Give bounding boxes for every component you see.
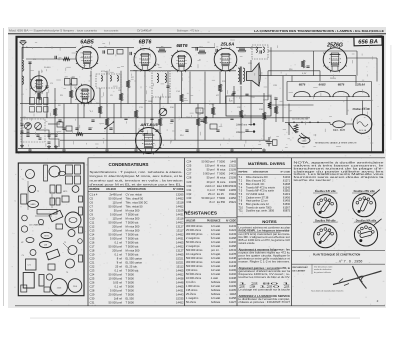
capacitor C11 <box>185 130 188 131</box>
svg-text:472: 472 <box>72 77 75 79</box>
resistor R12 <box>262 112 266 120</box>
capacitor C12 <box>200 120 203 121</box>
svg-text:14448: 14448 <box>176 280 184 284</box>
svg-text:1/4 watt: 1/4 watt <box>211 236 220 240</box>
svg-text:C22: C22 <box>90 264 95 268</box>
svg-text:C17: C17 <box>90 244 95 248</box>
wire jack arrows <box>249 124 253 131</box>
svg-text:11443: 11443 <box>229 232 237 236</box>
svg-text:1/2 watt: 1/2 watt <box>211 268 220 272</box>
svg-text:13118: 13118 <box>176 216 184 220</box>
svg-text:25 000 ohms: 25 000 ohms <box>186 228 202 232</box>
antenna coil second <box>22 76 23 84</box>
column divider x=184.5 <box>184 158 186 306</box>
wire <box>181 72 183 118</box>
svg-text:1/4 watt: 1/4 watt <box>211 256 220 260</box>
svg-text:50 000 pmf: 50 000 pmf <box>202 196 215 200</box>
svg-text:0,4 ohm: 0,4 ohm <box>186 280 195 284</box>
svg-text:100 pmf: 100 pmf <box>112 228 122 232</box>
svg-text:d'essai pour M et EL et de ser: d'essai pour M et EL et de service pour … <box>90 182 183 186</box>
resistor R ballast <box>294 124 298 133</box>
svg-text:R14: R14 <box>180 135 183 137</box>
svg-text:25L6A: 25L6A <box>356 83 365 87</box>
svg-text:R6: R6 <box>161 47 163 49</box>
svg-text:2 mégohms: 2 mégohms <box>186 236 200 240</box>
svg-text:14438: 14438 <box>176 276 184 280</box>
svg-text:20 000 pmf: 20 000 pmf <box>109 292 123 296</box>
wire <box>70 83 72 104</box>
wire B+ rail <box>258 75 356 77</box>
svg-text:14452: 14452 <box>176 204 184 208</box>
resistor R4 <box>98 106 102 114</box>
svg-text:VALEUR: VALEUR <box>186 219 196 222</box>
svg-text:C1 à 4: C1 à 4 <box>90 192 98 196</box>
svg-text:o58: o58 <box>44 245 47 247</box>
svg-text:T 5000 tub.: T 5000 tub. <box>126 240 140 244</box>
svg-text:6S3 - BU5: 6S3 - BU5 <box>333 128 346 132</box>
svg-text:C27: C27 <box>187 172 192 176</box>
svg-text:1/4 watt: 1/4 watt <box>211 264 220 268</box>
IF can 472 rects <box>65 79 71 86</box>
svg-text:NE BRANCHEZ JAMAIS LA TERRE DI: NE BRANCHEZ JAMAIS LA TERRE DIRECTE <box>315 142 357 145</box>
svg-text:T11: T11 <box>239 209 244 213</box>
svg-text:CW30: CW30 <box>263 100 268 102</box>
svg-text:masse. Régler C 1-2 et les tri: masse. Régler C 1-2 et les trimmers. <box>239 261 291 264</box>
svg-text:C6: C6 <box>90 200 94 204</box>
page edge shadow left <box>2 28 5 306</box>
coupling box T4 <box>252 45 268 59</box>
svg-text:6BT6: 6BT6 <box>44 236 49 238</box>
svg-text:Bobinages : 472 kc/s . .: Bobinages : 472 kc/s . . <box>177 30 202 33</box>
svg-text:N° CODE: N° CODE <box>281 172 291 174</box>
svg-text:11468: 11468 <box>229 236 237 240</box>
svg-text:VALEUR: VALEUR <box>106 188 116 191</box>
svg-text:Elec 3450: Elec 3450 <box>217 184 229 188</box>
svg-text:Voir désormais notre: Voir désormais notre <box>314 265 333 268</box>
svg-text:CV 2x490 pF: CV 2x490 pF <box>137 30 152 33</box>
svg-text:C29: C29 <box>187 180 192 184</box>
svg-text:11458: 11458 <box>229 296 237 300</box>
svg-text:50 000 pmf: 50 000 pmf <box>109 220 123 224</box>
svg-text:N° CODE: N° CODE <box>173 188 184 191</box>
svg-text:T 5000 tub.: T 5000 tub. <box>126 212 140 216</box>
capacitor C2 <box>45 86 48 87</box>
power cord <box>299 133 310 139</box>
svg-text:10 mégohms: 10 mégohms <box>186 252 202 256</box>
wire <box>99 88 101 118</box>
svg-text:M mica: M mica <box>217 176 226 180</box>
svg-text:50 ohms: 50 ohms <box>186 300 197 304</box>
svg-text:T5: T5 <box>64 242 66 244</box>
svg-text:C19: C19 <box>90 252 95 256</box>
svg-text:C5: C5 <box>90 196 94 200</box>
svg-text:ANT-BU5: ANT-BU5 <box>139 122 158 127</box>
svg-text:15112: 15112 <box>176 264 184 268</box>
svg-text:Douilles sup. amér. 1956: Douilles sup. amér. 1956 <box>246 209 275 213</box>
svg-text:25L6: 25L6 <box>73 286 77 288</box>
svg-text:mode de réalisation: mode de réalisation <box>314 268 331 271</box>
svg-text:C32: C32 <box>187 192 192 196</box>
capacitor C15 <box>245 130 248 131</box>
svg-text:Le pictage est commandé sur la: Le pictage est commandé sur la touche <box>239 289 291 292</box>
column divider x=291.5 <box>291 158 293 306</box>
svg-text:suivant ensuite.: suivant ensuite. <box>239 242 256 245</box>
schematic outer frame <box>17 37 384 153</box>
svg-text:300 000 ohms: 300 000 ohms <box>186 232 203 236</box>
wire top bus 4 <box>192 46 216 48</box>
capacitor C9 <box>155 130 158 131</box>
chassis oval 6AB5 <box>28 201 39 208</box>
svg-text:CV var. réduit: CV var. réduit <box>126 192 143 196</box>
condensateurs header row <box>88 185 185 187</box>
svg-text:longue C électrolytique M mi: longue C électrolytique M mica, aux tube… <box>90 174 184 178</box>
svg-text:150 pmf: 150 pmf <box>205 163 215 167</box>
svg-text:300 000 ohms: 300 000 ohms <box>186 260 203 264</box>
svg-text:C30: C30 <box>90 296 95 300</box>
svg-text:b: b <box>79 295 80 297</box>
svg-text:Douilles 6J5 ville: Douilles 6J5 ville <box>315 189 336 193</box>
svg-text:M mica 500: M mica 500 <box>126 228 140 232</box>
svg-text:T 5000: T 5000 <box>217 188 226 192</box>
svg-text:LA CONSTRUCTION DES TRANSFORMA: LA CONSTRUCTION DES TRANSFORMATEURS • LA… <box>254 29 384 33</box>
svg-text:M mica: M mica <box>217 168 226 172</box>
chassis speaker (rotated) <box>49 210 63 221</box>
capacitor C20 <box>232 92 235 93</box>
svg-text:3.: 3. <box>377 299 380 303</box>
CAD connector <box>298 137 310 143</box>
svg-text:12643: 12643 <box>229 248 237 252</box>
svg-text:0,1 mf: 0,1 mf <box>115 268 123 272</box>
svg-text:50 000 pmf: 50 000 pmf <box>109 272 123 276</box>
svg-text:T 5000 tub.: T 5000 tub. <box>126 268 140 272</box>
svg-text:1/4 watt: 1/4 watt <box>211 260 220 264</box>
svg-text:13109: 13109 <box>176 208 184 212</box>
B minus line <box>268 104 314 106</box>
svg-text:6BT6: 6BT6 <box>338 83 345 87</box>
resistor R5 <box>119 93 123 101</box>
svg-text:pot. int.: pot. int. <box>211 248 220 252</box>
svg-text:300 000 ohms: 300 000 ohms <box>186 224 203 228</box>
svg-text:50 000 pmf: 50 000 pmf <box>109 196 123 200</box>
svg-text:C26: C26 <box>187 168 192 172</box>
scan speckle noise <box>106 219 107 220</box>
svg-text:Tous droits de reproduction ré: Tous droits de reproduction réservés <box>311 290 343 293</box>
svg-text:T 5000 tub.: T 5000 tub. <box>126 236 140 240</box>
wire <box>250 60 252 126</box>
resistor R3 <box>69 90 73 98</box>
resistor R9 <box>203 116 207 124</box>
svg-text:14431: 14431 <box>176 288 184 292</box>
heading NOTES <box>237 216 292 218</box>
svg-text:Jolie 6 mm: Jolie 6 mm <box>236 125 247 127</box>
svg-text:T 5000 tub.: T 5000 tub. <box>126 232 140 236</box>
wire <box>38 71 40 104</box>
svg-text:15335: 15335 <box>176 296 184 300</box>
capacitor C1 <box>28 62 31 63</box>
chassis wires <box>27 181 29 210</box>
svg-text:1/4 watt: 1/4 watt <box>211 232 220 236</box>
svg-text:C28: C28 <box>187 176 192 180</box>
svg-text:25Z6G: 25Z6G <box>326 42 343 48</box>
chassis trimmer <box>28 185 35 192</box>
resistor R6 <box>134 110 138 118</box>
svg-text:500 000 ohms: 500 000 ohms <box>186 248 203 252</box>
svg-text:2x16 mf: 2x16 mf <box>205 184 215 188</box>
svg-text:14452: 14452 <box>176 272 184 276</box>
rule under date <box>292 263 386 265</box>
svg-text:14431: 14431 <box>176 236 184 240</box>
tube V3 converter <box>76 84 95 105</box>
tone network box <box>226 96 271 116</box>
svg-text:bobinée: bobinée <box>211 300 221 304</box>
svg-text:Jolie p.u.: Jolie p.u. <box>236 132 246 134</box>
capacitor C16 <box>274 98 277 99</box>
wire top bus 2 <box>98 46 134 48</box>
capacitor C8 <box>140 130 143 131</box>
svg-text:T 5000: T 5000 <box>126 292 135 296</box>
texture fuzz <box>21 40 374 152</box>
electrolytic capacitor C30 <box>266 137 273 146</box>
svg-text:Ordre ST-38: Ordre ST-38 <box>352 107 369 111</box>
wire phono bus <box>60 139 270 141</box>
page edge shadow right <box>390 45 393 140</box>
chassis layout box <box>18 163 84 296</box>
svg-text:C15: C15 <box>90 236 95 240</box>
svg-text:14452: 14452 <box>229 196 237 200</box>
resistor R13 <box>126 80 130 88</box>
svg-text:DE CARNET: DE CARNET <box>293 270 306 273</box>
tube V1 6AB5 <box>76 46 98 70</box>
svg-text:1/4 watt: 1/4 watt <box>211 228 220 232</box>
svg-text:Douilles PM ville: Douilles PM ville <box>315 218 336 222</box>
svg-text:13118: 13118 <box>176 200 184 204</box>
svg-text:14452: 14452 <box>176 232 184 236</box>
svg-text:C33: C33 <box>187 196 192 200</box>
wire heater baseline <box>294 96 369 98</box>
chassis terminal strip <box>44 165 48 181</box>
svg-text:8 mf: 8 mf <box>117 256 122 260</box>
tuning gang CV dashed box <box>21 119 45 142</box>
svg-text:C11: C11 <box>90 220 95 224</box>
capacitor C5 <box>91 120 94 121</box>
svg-text:5 000 pmf: 5 000 pmf <box>110 236 122 240</box>
bottom section top rule <box>88 157 385 159</box>
svg-text:656 BA: 656 BA <box>358 39 378 46</box>
svg-text:11443: 11443 <box>229 260 237 264</box>
chassis big tube <box>65 212 81 228</box>
svg-text:135 ohms: 135 ohms <box>186 288 198 292</box>
svg-text:DÉSIGNATION: DÉSIGNATION <box>253 171 268 174</box>
wire chassis bus <box>18 147 262 149</box>
mains switch <box>289 124 296 133</box>
svg-text:C34: C34 <box>187 200 192 204</box>
svg-text:5 000 pmf: 5 000 pmf <box>110 212 122 216</box>
svg-text:Douilles 25S ville: Douilles 25S ville <box>354 189 376 193</box>
svg-text:6BT6: 6BT6 <box>63 191 67 193</box>
svg-text:bobinée: bobinée <box>211 288 221 292</box>
svg-text:T2: T2 <box>37 191 39 193</box>
svg-text:Tbls. chauff 50: Tbls. chauff 50 <box>126 196 144 200</box>
svg-text:11478: 11478 <box>229 252 237 256</box>
svg-text:SPÉCIFICATION: SPÉCIFICATION <box>127 188 146 191</box>
svg-text:25 mf: 25 mf <box>115 264 122 268</box>
svg-text:14443: 14443 <box>176 292 184 296</box>
svg-text:1/4 watt: 1/4 watt <box>211 296 220 300</box>
wire <box>313 51 315 76</box>
svg-text:15321: 15321 <box>176 260 184 264</box>
svg-text:C25: C25 <box>187 163 192 167</box>
svg-text:50.000: 50.000 <box>44 67 51 69</box>
signature scribble <box>333 271 382 285</box>
svg-text:du présent châssis.: du présent châssis. <box>314 271 332 274</box>
resistor R1 <box>37 92 41 100</box>
tube V8 ANT-BUS ballast <box>136 127 162 155</box>
svg-text:14465: 14465 <box>176 268 184 272</box>
svg-text:200 pmf: 200 pmf <box>112 248 122 252</box>
wire <box>288 104 290 135</box>
svg-text:13265: 13265 <box>176 192 184 196</box>
svg-text:25L6A: 25L6A <box>220 41 235 46</box>
svg-text:200 pmf: 200 pmf <box>112 224 122 228</box>
svg-text:1/4 watt: 1/4 watt <box>211 272 220 276</box>
svg-text:10 000 ohms: 10 000 ohms <box>186 276 202 280</box>
svg-text:C18: C18 <box>90 248 95 252</box>
svg-text:15321: 15321 <box>229 200 237 204</box>
svg-text:150 ohms: 150 ohms <box>186 268 198 272</box>
svg-text:11432: 11432 <box>229 272 237 276</box>
svg-text:2x8 mf: 2x8 mf <box>114 296 122 300</box>
svg-text:C31: C31 <box>187 188 192 192</box>
ground <box>28 148 32 152</box>
svg-text:C21: C21 <box>90 260 95 264</box>
svg-text:13109: 13109 <box>229 176 237 180</box>
chassis tube 25Z6 <box>51 279 68 296</box>
bottom section bottom rule <box>15 305 385 307</box>
potentiometer volume <box>159 108 167 116</box>
wire <box>167 72 169 104</box>
svg-text:numéro qui suit, tension en vo: numéro qui suit, tension en volts ; la t… <box>90 178 184 182</box>
svg-text:1 mégohm: 1 mégohm <box>186 296 198 300</box>
svg-text:50 000 pmf: 50 000 pmf <box>109 300 123 304</box>
chassis right-edge parts <box>79 196 83 202</box>
chassis extra parts <box>22 215 28 221</box>
wire <box>212 104 214 118</box>
svg-text:11205: 11205 <box>229 288 237 292</box>
IF transformer T3 <box>152 71 170 97</box>
svg-text:C12: C12 <box>90 224 95 228</box>
svg-text:13117: 13117 <box>176 228 184 232</box>
resistor R2 <box>53 108 57 116</box>
wire bias bus <box>20 117 310 119</box>
svg-text:tous courants: tous courants <box>104 30 119 33</box>
wire <box>219 72 221 104</box>
svg-text:11432: 11432 <box>229 240 237 244</box>
tube V7 25Z6G rectifier <box>323 47 347 73</box>
svg-text:13127: 13127 <box>176 224 184 228</box>
capacitor C18 <box>150 118 153 119</box>
header rule <box>8 33 386 35</box>
tube V4 6BT6 <box>134 48 156 72</box>
svg-text:T 5000 tub.: T 5000 tub. <box>126 244 140 248</box>
svg-text:Spécifications : T papier, mic: Spécifications : T papier, mic. tubulair… <box>90 170 183 174</box>
wire <box>77 104 79 134</box>
resistor R11 <box>239 110 243 118</box>
svg-text:Mod. 656 BA — Superhétérodyne: Mod. 656 BA — Superhétérodyne 5 lampes .… <box>9 30 98 33</box>
svg-text:11448: 11448 <box>229 256 237 260</box>
antenna coil <box>22 60 23 71</box>
svg-text:2x490 pmf: 2x490 pmf <box>109 192 122 196</box>
chassis blocks <box>50 185 55 193</box>
tube V2 oscillator section <box>30 76 47 94</box>
svg-text:13122: 13122 <box>229 163 237 167</box>
svg-text:T 5000: T 5000 <box>217 159 226 163</box>
ground <box>134 148 138 152</box>
svg-text:15321: 15321 <box>176 256 184 260</box>
svg-text:1 watt: 1 watt <box>211 276 218 280</box>
svg-text:11127: 11127 <box>229 300 236 304</box>
svg-text:13109: 13109 <box>229 168 237 172</box>
svg-text:65875: 65875 <box>283 209 291 213</box>
wire <box>21 47 23 148</box>
chassis IF bar <box>37 210 57 215</box>
IF transformer T2 <box>96 74 121 88</box>
capacitor C19 <box>166 86 169 87</box>
svg-text:14452: 14452 <box>176 196 184 200</box>
extra wires right <box>268 50 314 52</box>
svg-text:1/2 watt: 1/2 watt <box>211 284 220 288</box>
svg-text:500 000 ohms: 500 000 ohms <box>186 256 203 260</box>
svg-text:CONDENSATEURS: CONDENSATEURS <box>109 162 149 167</box>
chassis transfo (rotated) <box>46 249 60 260</box>
svg-text:T6: T6 <box>66 272 68 274</box>
capacitor C6 <box>109 128 112 129</box>
wire top bus 3 <box>156 46 172 48</box>
svg-text:472: 472 <box>65 77 68 79</box>
svg-text:1/4 watt: 1/4 watt <box>211 240 220 244</box>
svg-text:13127: 13127 <box>176 248 184 252</box>
chassis tube 6AB5 <box>49 166 60 177</box>
svg-text:25Z6G: 25Z6G <box>330 78 336 80</box>
wire <box>240 86 242 140</box>
svg-text:RECHERCHEZ: RECHERCHEZ <box>293 267 309 269</box>
wire <box>144 71 146 127</box>
socket diagram 2 <box>353 194 376 217</box>
svg-text:.. n° 7 . 6 . 1956: .. n° 7 . 6 . 1956 <box>336 259 364 263</box>
svg-text:C24: C24 <box>90 272 95 276</box>
svg-text:C24: C24 <box>251 97 254 99</box>
svg-text:EL 550: EL 550 <box>126 296 135 300</box>
svg-text:11206: 11206 <box>229 268 237 272</box>
svg-text:C13: C13 <box>199 47 202 49</box>
svg-text:6,3V: 6,3V <box>302 73 307 75</box>
capacitor C17 <box>62 128 65 129</box>
inner box right <box>346 57 377 59</box>
fuse 6S3-BUS <box>333 121 346 128</box>
svg-text:C23: C23 <box>90 268 95 272</box>
scan smear artifact bottom <box>30 318 360 319</box>
svg-text:T 5000: T 5000 <box>217 172 226 176</box>
svg-text:RÉSISTANCES: RÉSISTANCES <box>184 211 217 216</box>
output transformer <box>238 68 240 82</box>
wire <box>63 104 65 149</box>
svg-text:11118: 11118 <box>229 292 236 296</box>
wire <box>355 76 357 86</box>
rectifier section box <box>314 50 358 52</box>
svg-text:T 5000: T 5000 <box>126 300 135 304</box>
svg-text:T 5000: T 5000 <box>126 280 135 284</box>
page reference label 656 BA <box>354 36 382 46</box>
svg-text:110 pmf: 110 pmf <box>112 200 122 204</box>
